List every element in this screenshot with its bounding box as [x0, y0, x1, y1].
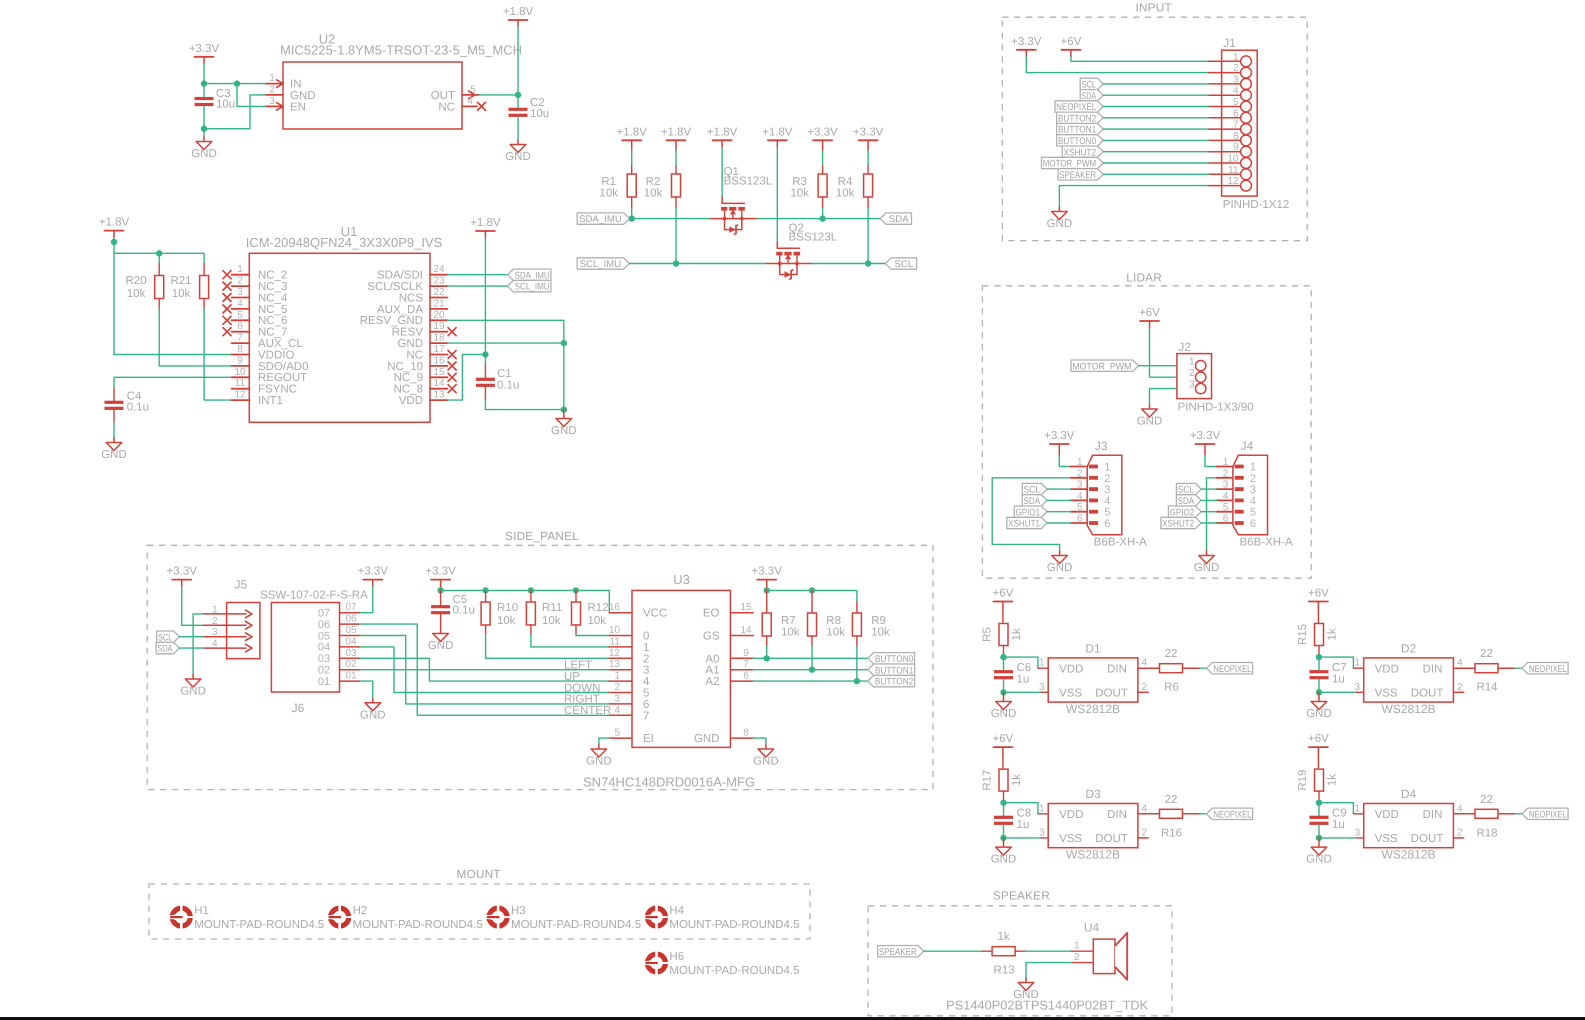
svg-text:+1.8V: +1.8V [99, 217, 130, 229]
U2 pin 4 NC [438, 96, 485, 113]
svg-text:VDD: VDD [399, 395, 423, 407]
wire R21 to INT1 [204, 299, 232, 401]
wire SCL_IMU to Q2 [630, 263, 765, 265]
net label MOTOR_PWM at J2 [1071, 360, 1139, 372]
wire J4 SDA [1201, 499, 1216, 501]
J6 pin 02 [318, 659, 360, 676]
svg-text:R3: R3 [792, 176, 807, 188]
wire D2 gnd stub [1318, 692, 1320, 697]
net label XSHUT2 to J1 pin 9 [1062, 146, 1103, 158]
svg-text:1: 1 [1250, 462, 1256, 474]
svg-text:GND: GND [753, 756, 779, 768]
capacitor C3 [195, 88, 236, 111]
capacitor C6 [994, 662, 1031, 686]
capacitor C2 [509, 97, 550, 120]
svg-text:2: 2 [643, 653, 649, 665]
resistor R7 [762, 613, 800, 638]
wire BUTTON0 pin8 [1103, 139, 1208, 141]
svg-text:MOUNT-PAD-ROUND4.5: MOUNT-PAD-ROUND4.5 [353, 919, 483, 931]
U3 pin 10 0 [609, 625, 650, 643]
U3 pin 7 A1 [705, 659, 753, 677]
svg-text:10k: 10k [826, 626, 845, 638]
svg-text:6: 6 [1104, 518, 1110, 530]
svg-text:DOUT: DOUT [1095, 833, 1128, 845]
svg-text:1: 1 [643, 642, 649, 654]
J1 pin 5 [1208, 97, 1251, 112]
svg-text:22: 22 [1480, 794, 1493, 806]
D4 name [1401, 787, 1417, 801]
svg-text:10k: 10k [781, 626, 800, 638]
wire R17 r bottom [1003, 791, 1005, 803]
wire C9 c bottom [1318, 825, 1320, 838]
svg-text:C9: C9 [1332, 808, 1347, 820]
svg-text:3: 3 [1250, 484, 1256, 496]
U1 pin 3 NC_4 [223, 287, 288, 304]
svg-text:2: 2 [237, 276, 243, 287]
svg-text:1: 1 [269, 73, 275, 84]
svg-text:SDA: SDA [157, 644, 172, 655]
J5 name [235, 578, 248, 592]
supply +6V at ws-D3 [993, 733, 1014, 754]
U1 pin 24 SDA/SDI [377, 264, 448, 281]
svg-text:7: 7 [1233, 120, 1239, 131]
svg-text:NEOPIXEL: NEOPIXEL [1529, 664, 1567, 675]
U1 pin 6 NC_7 [223, 321, 287, 338]
J1 pin 8 [1208, 131, 1251, 146]
wire R4 bottom [867, 197, 869, 264]
svg-text:4: 4 [237, 298, 243, 309]
wire pin23 to SCL_IMU [448, 285, 508, 287]
svg-text:4: 4 [643, 676, 650, 688]
wire R4 top [867, 147, 869, 174]
wire R17 r top [1002, 754, 1004, 769]
U2 name [319, 32, 336, 47]
U3 name [673, 572, 690, 587]
svg-text:15: 15 [433, 367, 445, 378]
svg-text:R2: R2 [646, 176, 661, 188]
svg-text:EN: EN [290, 101, 306, 113]
wire C3 stubs [203, 84, 205, 129]
svg-text:2: 2 [1457, 682, 1463, 693]
wire GND18 [448, 343, 564, 410]
capacitor C1 [476, 368, 519, 392]
svg-text:DIN: DIN [1423, 663, 1443, 675]
junction J-r10t [482, 587, 488, 593]
J6 pin 06 [318, 614, 360, 631]
svg-text:R15: R15 [1297, 624, 1309, 645]
svg-text:R17: R17 [982, 770, 994, 791]
svg-text:10k: 10k [871, 626, 890, 638]
svg-text:J5: J5 [235, 578, 248, 592]
svg-text:NC_7: NC_7 [258, 327, 287, 339]
svg-text:8: 8 [743, 728, 749, 739]
svg-text:GND: GND [505, 151, 531, 163]
supply +3.3V at J5 [167, 566, 198, 587]
U2 pin 3 EN [266, 96, 306, 113]
svg-text:C1: C1 [497, 368, 512, 380]
J6 pin 04 [318, 636, 360, 653]
wire J4 SCL [1201, 488, 1216, 490]
svg-text:1u: 1u [1332, 674, 1345, 686]
svg-text:2: 2 [1142, 682, 1148, 693]
connector J5 body [227, 603, 260, 659]
svg-text:2: 2 [614, 682, 620, 693]
section frame MOUNT [149, 867, 810, 939]
svg-text:6: 6 [643, 699, 649, 711]
svg-text:GND: GND [180, 686, 206, 698]
svg-text:SCL/SCLK: SCL/SCLK [367, 281, 423, 293]
J3 value [1094, 537, 1147, 549]
svg-text:10k: 10k [588, 615, 607, 627]
svg-text:WS2812B: WS2812B [1066, 702, 1120, 716]
svg-text:1k: 1k [1011, 628, 1023, 640]
wire J3 SCL [1047, 488, 1071, 490]
svg-text:R16: R16 [1161, 827, 1182, 839]
wire C4 gnd [113, 410, 115, 438]
svg-text:DOUT: DOUT [1411, 833, 1444, 845]
svg-text:R10: R10 [497, 602, 518, 614]
U1 pin 20 RESV_GND [360, 310, 448, 327]
wire C7 c top [1318, 657, 1320, 670]
D3 value [1066, 848, 1120, 862]
wire SPEAKER to R13 [924, 950, 992, 952]
svg-text:H2: H2 [353, 905, 368, 917]
mount pad H1 [169, 905, 324, 931]
junction J-D3-b [1000, 835, 1006, 841]
D3 name [1085, 787, 1101, 801]
D4 pin 2 DOUT [1411, 827, 1464, 845]
wire NEOPIXEL pin5 [1103, 106, 1208, 108]
svg-text:18: 18 [433, 333, 445, 344]
svg-text:R19: R19 [1297, 770, 1309, 791]
D1 value [1066, 702, 1120, 716]
ground J1 [1047, 207, 1073, 230]
svg-text:B6B-XH-A: B6B-XH-A [1240, 537, 1293, 549]
svg-text:SCL_IMU: SCL_IMU [515, 282, 550, 293]
svg-text:5: 5 [643, 688, 649, 700]
supply +3.3V at U2in [189, 43, 220, 64]
wire SDA_IMU to Q1 [630, 218, 710, 220]
J2 pin 3 [1189, 380, 1206, 394]
svg-text:DOUT: DOUT [1411, 687, 1444, 699]
svg-text:6: 6 [1077, 514, 1083, 525]
svg-text:SN74HC148DRD0016A-MFG: SN74HC148DRD0016A-MFG [583, 775, 755, 790]
J3 body [1087, 455, 1122, 534]
svg-text:+1.8V: +1.8V [617, 126, 648, 138]
svg-text:GND: GND [991, 854, 1017, 866]
ground U3 pin8 [753, 745, 779, 768]
svg-text:14: 14 [740, 625, 752, 636]
svg-text:R12: R12 [588, 602, 609, 614]
svg-text:+3.3V: +3.3V [425, 566, 456, 578]
U1 pin 21 AUX_DA [377, 298, 448, 315]
wire D2 vdd [1319, 657, 1364, 668]
D2 pin 2 DOUT [1411, 682, 1464, 700]
J3 pin 3 [1071, 480, 1111, 497]
svg-text:20: 20 [433, 310, 445, 321]
ground J2 [1137, 405, 1163, 428]
wire EN tie to IN [237, 84, 266, 107]
wire pin2 GND to rail [204, 95, 266, 129]
ground ws-D3 [991, 843, 1017, 866]
junction J-r7t [764, 587, 770, 593]
D3 pin 3 VSS [1039, 827, 1083, 845]
J1 value [1223, 199, 1289, 211]
svg-text:NC_10: NC_10 [387, 361, 423, 373]
net label XSHUT2 at J4 [1161, 517, 1201, 529]
ground U3 EI [586, 745, 612, 768]
resistor R5 [982, 624, 1024, 646]
D1 pin 1 VDD [1039, 658, 1083, 676]
svg-text:10u: 10u [216, 99, 235, 111]
wire C6 c bottom [1003, 679, 1005, 692]
svg-text:R11: R11 [542, 602, 562, 614]
supply +6V at ws-D4 [1308, 733, 1329, 754]
wire SDA pin4 [1103, 94, 1208, 96]
transistor Q2 [765, 222, 838, 279]
net label SDA_IMU at U1 [508, 269, 551, 281]
svg-text:SSW-107-02-F-S-RA: SSW-107-02-F-S-RA [260, 590, 368, 602]
svg-text:RESV_GND: RESV_GND [360, 315, 423, 327]
wire +1.8V left rail [114, 238, 204, 355]
wire R6 out [1183, 667, 1207, 669]
wire U4 pin2 gnd [1026, 963, 1093, 978]
wire net J6-02 LEFT [360, 669, 609, 671]
U1 pin 22 NCS [399, 287, 448, 304]
wire R11 top stub [530, 590, 532, 602]
wire J3 GPIO1 [1047, 511, 1071, 513]
svg-text:3: 3 [212, 627, 218, 638]
D1 pin 4 DIN [1107, 658, 1160, 676]
wire C2 stubs [517, 95, 519, 140]
junction J-D1-a [1000, 654, 1006, 660]
net label SDA at J3 [1022, 495, 1047, 507]
op-amp U2 body [283, 62, 462, 129]
wire C8 c top [1003, 803, 1005, 816]
svg-text:07: 07 [345, 602, 357, 613]
IC U3 body [632, 590, 730, 747]
wire D3 vss [1004, 837, 1049, 839]
svg-text:C7: C7 [1332, 662, 1347, 674]
svg-text:7: 7 [237, 333, 243, 344]
svg-text:AUX_CL: AUX_CL [258, 338, 303, 350]
net label BUTTON1 [868, 664, 915, 676]
svg-text:3: 3 [1354, 682, 1360, 693]
wire pin24 to SDA_IMU [448, 274, 508, 276]
LED D4 body [1364, 804, 1454, 848]
J3 pin 1 [1071, 457, 1111, 474]
svg-text:05: 05 [345, 625, 357, 636]
svg-text:11: 11 [610, 636, 621, 647]
capacitor C5 [431, 594, 475, 617]
svg-text:GND: GND [1137, 416, 1163, 428]
svg-text:03: 03 [345, 648, 357, 659]
J6 name [292, 701, 305, 715]
net label XSHUT1 at J3 [1007, 517, 1047, 529]
wire U3 GND pin8 [753, 738, 766, 744]
wire +6V to J2 pin2 [1150, 328, 1196, 377]
wire R2 bottom [675, 197, 677, 264]
J3 pin 2 [1071, 468, 1111, 485]
wire R10 top stub [485, 590, 487, 602]
svg-text:R14: R14 [1476, 682, 1498, 694]
svg-text:10k: 10k [836, 188, 855, 200]
svg-text:2: 2 [1223, 468, 1229, 479]
U1 name [341, 224, 358, 239]
svg-text:9: 9 [743, 648, 749, 659]
svg-text:23: 23 [433, 276, 445, 287]
svg-text:DIN: DIN [1107, 809, 1127, 821]
speaker U4 [946, 921, 1148, 1013]
svg-text:2: 2 [1457, 827, 1463, 838]
junction J-D3-a [1000, 800, 1006, 806]
svg-text:+1.8V: +1.8V [762, 126, 793, 138]
svg-text:1: 1 [1189, 357, 1195, 368]
svg-text:4: 4 [1250, 495, 1256, 507]
net label GPIO2 at J4 [1168, 506, 1201, 518]
U3 pin 14 GS [703, 625, 753, 643]
svg-text:SCL: SCL [158, 632, 173, 643]
U1 pin 2 NC_3 [223, 276, 287, 293]
net label MOTOR_PWM to J1 pin 10 [1042, 157, 1104, 169]
D4 pin 4 DIN [1423, 803, 1476, 821]
wire R1 top [631, 147, 633, 174]
svg-text:16: 16 [433, 355, 445, 366]
resistor R17 [982, 769, 1024, 791]
svg-text:05: 05 [318, 630, 330, 642]
ground below C4 [101, 438, 127, 461]
net label BUTTON1 to J1 pin 7 [1057, 123, 1104, 135]
junction J-D4-b [1316, 835, 1322, 841]
wire D1 vss [1004, 691, 1049, 693]
wire net J6-04 DOWN [360, 647, 609, 693]
svg-text:WS2812B: WS2812B [1381, 702, 1435, 716]
J5 pin 3 [204, 627, 252, 640]
svg-text:C6: C6 [1017, 662, 1032, 674]
resistor R3 [790, 174, 827, 200]
svg-text:11: 11 [1228, 165, 1239, 176]
svg-text:6: 6 [1233, 108, 1239, 119]
svg-text:B6B-XH-A: B6B-XH-A [1094, 537, 1147, 549]
svg-text:GND: GND [1306, 708, 1332, 720]
svg-text:7: 7 [643, 710, 649, 722]
svg-text:SDA_IMU: SDA_IMU [515, 270, 550, 281]
svg-text:4: 4 [467, 96, 473, 107]
svg-text:C4: C4 [127, 390, 142, 402]
U2 pin 2 GND [266, 84, 316, 101]
wire R12 to pin10 [576, 625, 609, 636]
supply +6V at J1-6 [1061, 36, 1082, 57]
svg-text:SIDE_PANEL: SIDE_PANEL [505, 529, 579, 543]
svg-text:SPEAKER: SPEAKER [879, 947, 917, 958]
svg-text:ICM-20948QFN24_3X3X0P9_IVS: ICM-20948QFN24_3X3X0P9_IVS [246, 235, 443, 250]
section frame LIDAR [982, 271, 1311, 579]
svg-text:+3.3V: +3.3V [853, 126, 884, 138]
U1 pin 1 NC_2 [223, 264, 287, 281]
svg-text:5: 5 [1250, 507, 1256, 519]
svg-text:J3: J3 [1095, 439, 1108, 453]
svg-text:10k: 10k [172, 288, 191, 300]
resistor R16 [1160, 794, 1183, 840]
svg-text:+3.3V: +3.3V [1190, 430, 1221, 442]
wire R20 to SDO/AD0 [159, 299, 231, 366]
wire R19 r top [1317, 754, 1319, 769]
svg-text:06: 06 [318, 619, 330, 631]
svg-text:INPUT: INPUT [1135, 1, 1171, 15]
svg-text:GS: GS [703, 631, 720, 643]
net label BUTTON2 to J1 pin 6 [1057, 112, 1104, 124]
U3 pin 11 1 [609, 636, 649, 654]
svg-text:INT1: INT1 [258, 395, 283, 407]
J4 pin 2 [1216, 468, 1256, 485]
J6 pin 05 [318, 625, 360, 642]
wire BUTTON2 pin6 [1103, 117, 1208, 119]
svg-text:NC_5: NC_5 [258, 304, 287, 316]
svg-text:DIN: DIN [1107, 663, 1127, 675]
J4 pin 6 [1216, 514, 1256, 531]
svg-text:9: 9 [237, 355, 243, 366]
supply +3.3V at C5 [425, 566, 456, 587]
net label NEOPIXEL to J1 pin 5 [1055, 101, 1103, 113]
wire A2 to BUTTON2 [753, 680, 868, 682]
svg-text:R4: R4 [838, 176, 853, 188]
svg-text:4: 4 [614, 705, 620, 716]
U1 pin 13 VDD [399, 390, 448, 407]
svg-text:NCS: NCS [399, 292, 424, 304]
svg-text:D1: D1 [1085, 642, 1101, 656]
wire C8 c bottom [1003, 825, 1005, 838]
svg-text:SCL: SCL [895, 259, 914, 270]
svg-text:GND: GND [191, 148, 217, 160]
svg-text:MOUNT-PAD-ROUND4.5: MOUNT-PAD-ROUND4.5 [511, 919, 641, 931]
U1 pin 14 NC_8 [394, 378, 457, 395]
junction J-D2-b [1316, 689, 1322, 695]
U3 pin 9 A0 [705, 648, 753, 666]
resistor R2 [644, 174, 681, 200]
J6 pin 01 [318, 671, 360, 688]
svg-text:GND: GND [551, 425, 577, 437]
wire C5 top stub [440, 590, 442, 605]
svg-text:12: 12 [1227, 176, 1239, 187]
net label SCL at J4 [1176, 483, 1201, 495]
svg-text:2: 2 [1142, 827, 1148, 838]
supply +3.3V at ls-R3 [807, 126, 838, 147]
svg-text:22: 22 [1165, 794, 1178, 806]
svg-text:NC_3: NC_3 [258, 281, 287, 293]
junction J-r8t [809, 587, 815, 593]
svg-text:MIC5225-1.8YM5-TRSOT-23-5_M5_M: MIC5225-1.8YM5-TRSOT-23-5_M5_MCH [280, 43, 522, 58]
svg-text:1: 1 [1039, 658, 1045, 669]
D3 pin 4 DIN [1107, 803, 1160, 821]
svg-text:C8: C8 [1017, 808, 1032, 820]
svg-text:1k: 1k [1327, 774, 1339, 786]
svg-text:NEOPIXEL: NEOPIXEL [1214, 809, 1252, 820]
capacitor C7 [1310, 662, 1347, 686]
J4 value [1240, 537, 1293, 549]
label UP [564, 671, 580, 683]
U2 value [280, 43, 522, 58]
wire BUTTON1 pin7 [1103, 128, 1208, 130]
D2 name [1401, 642, 1417, 656]
U1 pin 11 FSYNC [232, 378, 297, 395]
svg-text:15: 15 [740, 602, 752, 613]
U1 pin 12 INT1 [232, 390, 283, 407]
wire U3 EI gnd [599, 738, 609, 744]
supply +3.3V at ls-R4 [853, 126, 884, 147]
U1 pin 18 GND [397, 333, 447, 350]
svg-text:BSS123L: BSS123L [789, 232, 838, 244]
svg-text:SDA: SDA [889, 214, 909, 225]
